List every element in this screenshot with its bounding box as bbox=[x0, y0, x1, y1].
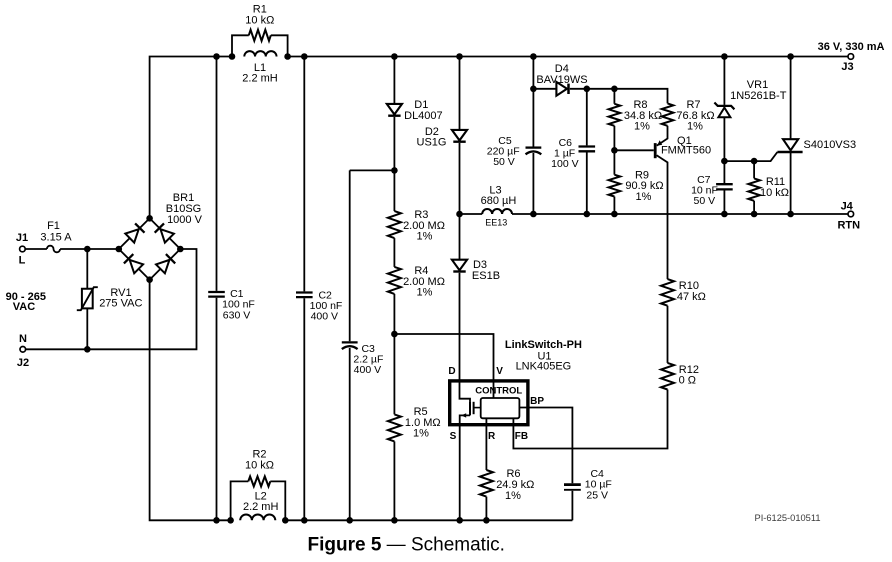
J1 terminal labels bbox=[16, 232, 28, 267]
svg-text:10 kΩ: 10 kΩ bbox=[760, 187, 789, 199]
wire C5 to D4 bbox=[533, 88, 556, 90]
svg-text:400 V: 400 V bbox=[311, 311, 338, 323]
junction C5 / D4 branch bbox=[530, 86, 537, 93]
bridge diode upper-left bbox=[125, 223, 144, 242]
svg-text:630 V: 630 V bbox=[223, 309, 250, 321]
wire base node to R9 bbox=[613, 150, 615, 174]
wire C3 top link bbox=[350, 169, 395, 171]
D1 labels bbox=[404, 99, 443, 122]
wire SCR to RTN bbox=[790, 152, 792, 214]
U1 pin label V bbox=[496, 366, 503, 377]
bridge diode upper-right bbox=[155, 223, 174, 242]
R12 labels bbox=[679, 364, 699, 386]
varistor RV1 bbox=[77, 287, 98, 310]
wire R5 to bottom rail bbox=[393, 441, 395, 520]
C5 labels bbox=[487, 135, 520, 168]
wire RTN rail right of L3 bbox=[512, 213, 848, 215]
C4 labels bbox=[585, 468, 612, 501]
resistor R7 bbox=[662, 103, 674, 125]
wire D4 node to C6 bbox=[586, 89, 588, 146]
wire C1 upper bbox=[216, 57, 218, 291]
resistor R10 bbox=[661, 279, 674, 306]
svg-text:L: L bbox=[19, 255, 26, 267]
U1 pin label FB bbox=[515, 431, 528, 442]
resistor R3 bbox=[388, 211, 401, 238]
svg-text:VAC: VAC bbox=[13, 301, 35, 313]
junction R8-R9 / Q1 base bbox=[611, 147, 618, 154]
junction bottom rail / C2 bbox=[301, 517, 308, 524]
wire C1 lower bbox=[216, 298, 218, 521]
svg-text:1000 V: 1000 V bbox=[167, 214, 203, 226]
wire R3 to R4 bbox=[393, 238, 395, 267]
U1 mosfet gate lead bbox=[474, 407, 481, 409]
resistor R2 bbox=[248, 476, 270, 486]
J3 label bbox=[841, 61, 853, 73]
junction D1-R3 node / C3 branch bbox=[391, 167, 398, 174]
svg-text:S4010VS3: S4010VS3 bbox=[804, 139, 857, 151]
wire R11 to RTN bbox=[753, 201, 755, 214]
svg-text:BAV19WS: BAV19WS bbox=[536, 74, 587, 86]
wire D3 to U1 drain bbox=[460, 273, 471, 401]
svg-text:1%: 1% bbox=[413, 428, 429, 440]
capacitor C2 bbox=[296, 293, 313, 298]
junction gate / R11 bbox=[751, 158, 758, 165]
junction top rail / C2 bbox=[301, 53, 308, 60]
wire base bbox=[614, 149, 653, 151]
wire C3 upper bbox=[349, 170, 351, 341]
wire R10 to R12 bbox=[667, 306, 669, 363]
svg-text:FB: FB bbox=[515, 431, 528, 442]
capacitor C5 bbox=[526, 148, 542, 155]
svg-text:50 V: 50 V bbox=[493, 156, 515, 168]
transistor Q1 emitter bbox=[657, 126, 668, 146]
bridge rectifier BR1 diamond bbox=[119, 218, 181, 279]
svg-text:S: S bbox=[450, 431, 457, 442]
junction top rail / R1-L1 right bbox=[284, 53, 291, 60]
R4 labels bbox=[403, 265, 445, 299]
L3 labels bbox=[481, 185, 517, 228]
wire top rail to VR1 bbox=[723, 57, 725, 105]
svg-text:1%: 1% bbox=[417, 231, 433, 243]
wire D2 to RTN rail bbox=[459, 143, 461, 214]
U1 pin label D bbox=[448, 366, 455, 377]
input voltage label bbox=[6, 291, 46, 313]
svg-text:1%: 1% bbox=[636, 191, 652, 203]
svg-text:1%: 1% bbox=[634, 121, 650, 133]
wire BP to C4 bbox=[519, 408, 572, 484]
R3 labels bbox=[403, 209, 445, 243]
capacitor C7 bbox=[716, 184, 733, 189]
D3 labels bbox=[472, 259, 500, 282]
wire RTN to D3 bbox=[459, 214, 461, 260]
svg-text:D: D bbox=[448, 366, 455, 377]
wire VR1 to gate node bbox=[723, 117, 725, 183]
junction RTN rail / D2-D3 bbox=[456, 211, 463, 218]
wire R6 to bottom rail bbox=[485, 497, 487, 521]
U1 pin label R bbox=[488, 431, 496, 442]
junction RTN rail / C5 bbox=[530, 211, 537, 218]
wire top rail to SCR bbox=[790, 57, 792, 140]
U1 labels bbox=[505, 339, 582, 373]
U1 CONTROL label bbox=[475, 386, 522, 397]
junction D4 node / R8 bbox=[611, 86, 618, 93]
junction top rail / R1-L1 left bbox=[229, 53, 236, 60]
junction L/RV1 bbox=[84, 246, 91, 253]
svg-text:2.2 mH: 2.2 mH bbox=[242, 73, 278, 85]
F1 label bbox=[40, 220, 72, 244]
resistor R4 bbox=[388, 267, 401, 294]
junction RTN rail / R9 bbox=[611, 211, 618, 218]
C3 labels bbox=[353, 343, 383, 376]
wire RV1 branch upper bbox=[86, 249, 88, 288]
capacitor C4 bbox=[564, 485, 581, 490]
wire bridge positive to top rail left segment bbox=[150, 57, 232, 219]
wire top rail to C5 bbox=[532, 57, 534, 147]
svg-text:R: R bbox=[488, 431, 496, 442]
wire R9 to RTN bbox=[613, 197, 615, 215]
C6 labels bbox=[551, 137, 578, 170]
junction RTN rail / SCR bbox=[787, 211, 794, 218]
svg-text:25 V: 25 V bbox=[586, 489, 608, 501]
node J2 (neutral terminal) bbox=[20, 347, 26, 353]
R7 labels bbox=[676, 99, 714, 133]
junction bottom rail / S pin bbox=[456, 517, 463, 524]
svg-text:F1: F1 bbox=[47, 220, 60, 232]
wire bottom rail right segment bbox=[285, 519, 572, 521]
resistor R5 bbox=[388, 414, 401, 441]
svg-text:BP: BP bbox=[530, 396, 544, 407]
svg-text:400 V: 400 V bbox=[354, 364, 381, 376]
diode D4 bbox=[556, 82, 568, 96]
L1 labels bbox=[242, 62, 278, 85]
junction D4 node / C6 bbox=[584, 86, 591, 93]
U1 mosfet channel bar bbox=[469, 401, 471, 415]
svg-text:2.2 mH: 2.2 mH bbox=[243, 501, 279, 513]
junction N/RV1 bbox=[84, 346, 91, 353]
wire C7 to RTN bbox=[723, 191, 725, 215]
output label 36V bbox=[818, 41, 885, 53]
junction top rail / C1 bbox=[213, 53, 220, 60]
thyristor S4010VS3 bbox=[777, 139, 802, 152]
R5 labels bbox=[405, 406, 441, 440]
C7 labels bbox=[691, 174, 718, 207]
junction VR1 / gate wire bbox=[721, 158, 728, 165]
wire R12 to FB bbox=[513, 390, 667, 449]
inductor L1 bbox=[244, 51, 276, 56]
svg-text:J4: J4 bbox=[841, 201, 854, 213]
R2 labels bbox=[245, 449, 274, 472]
resistor R8 bbox=[609, 104, 621, 126]
svg-text:36 V, 330 mA: 36 V, 330 mA bbox=[818, 41, 885, 53]
svg-text:ES1B: ES1B bbox=[472, 270, 500, 282]
C2 labels bbox=[310, 289, 343, 322]
junction RTN rail / C7 bbox=[721, 211, 728, 218]
L2 labels bbox=[243, 490, 279, 513]
RV1 labels bbox=[99, 287, 142, 310]
resistor R11 bbox=[748, 178, 760, 200]
diode D2 bbox=[452, 130, 467, 142]
R9 labels bbox=[625, 169, 663, 203]
IC U1 LNK405EG package outline bbox=[450, 381, 528, 425]
wire gate bbox=[724, 152, 777, 161]
diode D1 bbox=[387, 104, 402, 116]
junction top rail / VR1 bbox=[721, 53, 728, 60]
svg-text:50 V: 50 V bbox=[693, 195, 715, 207]
node J1 (line input terminal) bbox=[20, 246, 26, 252]
svg-text:LNK405EG: LNK405EG bbox=[516, 361, 572, 373]
svg-text:1%: 1% bbox=[417, 287, 433, 299]
zener diode VR1 bbox=[714, 103, 734, 118]
bridge corner dots bbox=[116, 215, 184, 283]
wire R8 to base node bbox=[613, 126, 615, 151]
junction bottom rail / R6 bbox=[483, 517, 490, 524]
junction bottom rail / C3 bbox=[346, 517, 353, 524]
wire C2 lower bbox=[303, 298, 305, 520]
wire R4 to R5 bbox=[393, 294, 395, 415]
bridge diode lower-left bbox=[124, 254, 143, 273]
capacitor C1 bbox=[208, 292, 225, 297]
resistor R1 loop bbox=[232, 35, 288, 56]
wire C6 to RTN bbox=[586, 152, 588, 214]
C1 labels bbox=[222, 288, 255, 321]
D4 labels bbox=[536, 63, 587, 86]
resistor R6 bbox=[480, 470, 493, 497]
svg-text:1N5261B-T: 1N5261B-T bbox=[730, 90, 787, 102]
wire RTN rail left of L3 bbox=[460, 213, 483, 215]
R1 labels bbox=[245, 4, 274, 27]
fuse F1 3.15 A bbox=[47, 246, 60, 253]
svg-text:J1: J1 bbox=[16, 232, 28, 244]
R10 labels bbox=[677, 280, 706, 303]
svg-text:Figure 5 — Schematic.: Figure 5 — Schematic. bbox=[308, 534, 505, 555]
resistor R12 bbox=[661, 363, 674, 390]
diode D3 bbox=[452, 260, 467, 272]
capacitor C6 bbox=[579, 147, 596, 152]
wire C4 to bottom rail bbox=[571, 491, 573, 521]
wire D1 to R3 bbox=[393, 117, 395, 211]
junction RTN rail / C6 bbox=[584, 211, 591, 218]
U1 pin label BP bbox=[530, 396, 544, 407]
wire J1 to fuse F1 bbox=[25, 248, 47, 250]
R6 labels bbox=[496, 468, 534, 502]
svg-text:LinkSwitch-PH: LinkSwitch-PH bbox=[505, 339, 582, 351]
svg-text:CONTROL: CONTROL bbox=[475, 386, 522, 397]
svg-text:US1G: US1G bbox=[417, 137, 447, 149]
transistor Q1 collector bbox=[657, 155, 668, 279]
junction bottom rail / C1 bbox=[213, 517, 220, 524]
junction RTN rail / R11 bbox=[751, 211, 758, 218]
J2 terminal labels bbox=[17, 333, 29, 369]
inductor L3 bbox=[482, 209, 512, 214]
junction bottom rail / R2-L2 right bbox=[282, 517, 289, 524]
bridge diode lower-right bbox=[156, 254, 175, 273]
PI document number bbox=[755, 513, 821, 523]
resistor R9 bbox=[609, 175, 621, 197]
svg-text:N: N bbox=[19, 333, 27, 345]
svg-text:680 µH: 680 µH bbox=[481, 195, 517, 207]
wire R pin to R6 bbox=[485, 418, 487, 470]
svg-text:1%: 1% bbox=[687, 121, 703, 133]
wire D4 node to R8 bbox=[613, 89, 615, 104]
junction top rail / SCR bbox=[787, 53, 794, 60]
wire V pin bbox=[394, 334, 493, 398]
transistor Q1 base bar bbox=[654, 143, 657, 158]
svg-text:275 VAC: 275 VAC bbox=[99, 298, 142, 310]
junction top rail / D2 bbox=[456, 53, 463, 60]
U1 mosfet gate bar bbox=[473, 402, 475, 414]
svg-text:DL4007: DL4007 bbox=[404, 110, 443, 122]
wire C3 lower bbox=[349, 348, 351, 520]
R11 labels bbox=[760, 176, 789, 199]
wire C2 upper bbox=[303, 57, 305, 292]
junction bottom rail / R5 bbox=[391, 517, 398, 524]
junction bottom rail / R2-L2 left bbox=[227, 517, 234, 524]
svg-text:FMMT560: FMMT560 bbox=[661, 144, 711, 156]
VR1 labels bbox=[730, 79, 787, 102]
svg-text:V: V bbox=[496, 366, 503, 377]
svg-text:0 Ω: 0 Ω bbox=[679, 374, 696, 386]
wire RV1 branch lower bbox=[86, 308, 88, 349]
svg-text:47 kΩ: 47 kΩ bbox=[677, 291, 706, 303]
svg-text:10 kΩ: 10 kΩ bbox=[245, 14, 274, 26]
wire fuse to bridge left corner bbox=[60, 248, 119, 250]
svg-text:1%: 1% bbox=[505, 490, 521, 502]
junction top rail / C5 bbox=[530, 53, 537, 60]
BR1 labels bbox=[166, 192, 203, 226]
junction top rail / D1 bbox=[391, 53, 398, 60]
wire top rail to D2 bbox=[459, 57, 461, 130]
svg-text:PI-6125-010511: PI-6125-010511 bbox=[755, 513, 821, 523]
svg-text:RTN: RTN bbox=[837, 220, 860, 232]
wire neutral to bridge right corner bbox=[26, 249, 197, 349]
J4 label bbox=[841, 201, 854, 213]
svg-text:3.15 A: 3.15 A bbox=[40, 232, 72, 244]
wire bridge negative to bottom rail bbox=[150, 280, 231, 521]
figure caption bbox=[308, 534, 505, 555]
junction R4-R5 node / V branch bbox=[391, 331, 398, 338]
svg-text:J2: J2 bbox=[17, 357, 29, 369]
capacitor C3 bbox=[342, 342, 358, 349]
U1 pin label S bbox=[450, 431, 457, 442]
wire gate node to R11 bbox=[753, 161, 755, 178]
U1 mosfet source wire to S pin bbox=[460, 413, 470, 520]
Q1 labels bbox=[661, 135, 711, 157]
resistor R2 loop bbox=[231, 481, 286, 520]
resistor R1 bbox=[249, 30, 271, 41]
svg-text:J3: J3 bbox=[841, 61, 853, 73]
wire top rail to D1 bbox=[393, 57, 395, 104]
wire C5 to RTN bbox=[532, 153, 534, 214]
svg-text:EE13: EE13 bbox=[485, 218, 507, 228]
node J4 return terminal bbox=[848, 211, 854, 217]
svg-text:10 kΩ: 10 kΩ bbox=[245, 459, 274, 471]
inductor L2 bbox=[240, 514, 275, 520]
S4010VS3 label bbox=[804, 139, 857, 151]
wire D4 to R7 corner bbox=[570, 89, 668, 104]
svg-text:100 V: 100 V bbox=[551, 158, 578, 170]
U1 controller block bbox=[481, 398, 520, 418]
RTN label bbox=[837, 220, 860, 232]
node J3 output terminal bbox=[848, 54, 854, 60]
D2 labels bbox=[417, 126, 447, 149]
wire top rail right segment bbox=[288, 56, 848, 58]
R8 labels bbox=[624, 99, 662, 133]
svg-text:D4: D4 bbox=[555, 63, 569, 75]
